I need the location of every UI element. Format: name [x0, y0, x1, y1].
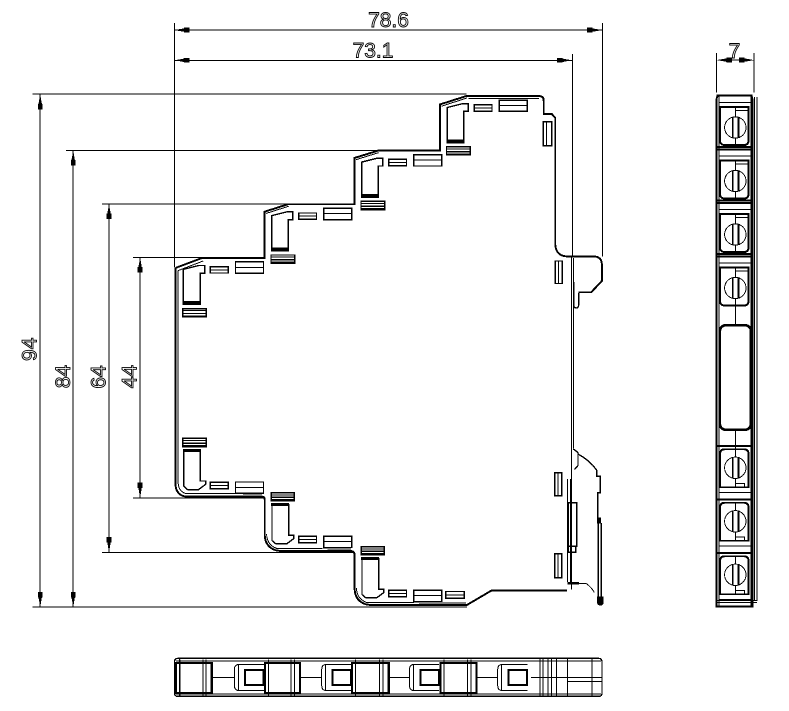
bottom view clamp opening 4 [498, 664, 528, 690]
dimension 7 (module width) [716, 53, 718, 93]
svg-text:84: 84 [52, 365, 75, 389]
front view screw terminal 7 [717, 552, 753, 554]
front view outer body [717, 96, 753, 607]
terminal clamp on step 3 (side view) [362, 158, 383, 194]
dimension 94 (overall height) [33, 93, 467, 95]
svg-text:73.1: 73.1 [353, 40, 394, 63]
terminal clamp on step 4 (side view) [447, 104, 468, 140]
terminal clamp on step 2 (side view) [272, 212, 293, 248]
front view screw terminal 5 [717, 445, 753, 447]
svg-text:7: 7 [729, 40, 741, 63]
bottom view right end lines [539, 659, 541, 696]
dimension 44 [133, 256, 202, 258]
front view rail clip edge lines [753, 97, 755, 601]
dimension 84 [66, 149, 378, 151]
lower side slot on right column [555, 554, 562, 578]
front view window centerlines [735, 306, 737, 325]
bottom view clamp opening 1 [234, 664, 264, 690]
latch bottom stub [568, 582, 579, 585]
DIN latch tooth [573, 449, 578, 470]
svg-text:64: 64 [87, 365, 110, 389]
dimension 64 [102, 203, 288, 205]
front view label window [720, 325, 751, 430]
bottom rail flat edge [492, 589, 567, 591]
svg-text:78.6: 78.6 [368, 9, 409, 32]
dimension 78.6 (overall width) with extension lines [173, 23, 175, 268]
bottom view module section square 2 [265, 663, 300, 693]
top slot on right column [543, 122, 552, 146]
side view body outline upper staircase [175, 96, 602, 292]
mid side slot on right column [555, 473, 562, 496]
dimension 73.1 with extension line [571, 54, 573, 256]
svg-text:94: 94 [19, 337, 42, 361]
DIN latch outer curve [578, 454, 600, 518]
bottom view clamp opening 3 [410, 664, 440, 690]
bottom view outer strip [175, 658, 603, 696]
terminal clamp on bottom step 3 (side view) [362, 559, 384, 598]
terminal clamp on bottom step 2 (side view) [272, 505, 294, 544]
terminal clamp on bottom step 1 (side view) [184, 451, 206, 490]
DIN latch stem [597, 523, 599, 601]
bottom view module section square 3 [352, 663, 389, 693]
right column inner vertical pair [570, 258, 572, 590]
front view bottom lines [717, 599, 757, 601]
front view screw terminal 4 [717, 253, 753, 255]
bottom view centerline [212, 677, 235, 679]
latch bottom thin edge [572, 583, 594, 592]
DIN latch mark [598, 518, 601, 523]
svg-text:44: 44 [119, 365, 142, 389]
upper side slot on right column [555, 261, 562, 284]
terminal clamp on step 1 (side view) [183, 266, 204, 302]
DIN hook inner bars [574, 282, 579, 308]
front view screw terminal 3 [717, 200, 753, 202]
side view bottom edge inner lines [178, 271, 466, 604]
side view body outline left edge and bottom staircase [175, 268, 567, 605]
side view body outline chamfer inner lines [178, 98, 467, 271]
front view screw terminal 6 [717, 498, 753, 500]
bottom view module section square 4 [441, 663, 477, 693]
front view screw terminal 2 [717, 146, 753, 148]
front view screw terminal 1 [717, 95, 753, 97]
bottom view module section square 1 [176, 663, 212, 693]
bottom view clamp opening 2 [322, 664, 352, 690]
front view inner edge lines [718, 96, 720, 607]
latch inner vertical pair [567, 479, 569, 582]
latch slider [568, 503, 576, 547]
